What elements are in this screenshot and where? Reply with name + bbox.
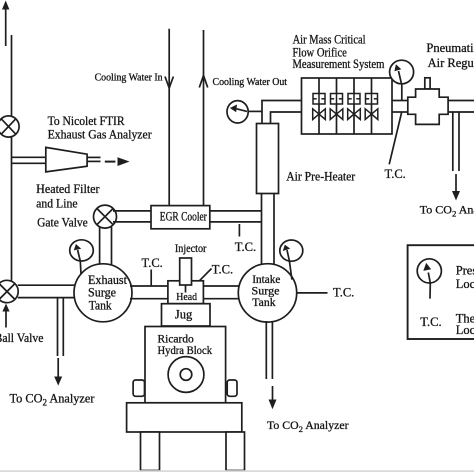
svg-text:and Line: and Line	[36, 196, 78, 211]
svg-text:To CO2 Analyzer: To CO2 Analyzer	[10, 391, 95, 407]
svg-text:Locations: Locations	[456, 323, 474, 337]
svg-text:Jug: Jug	[175, 308, 193, 322]
svg-text:To CO2 Analyzer: To CO2 Analyzer	[420, 203, 474, 219]
svg-text:Tank: Tank	[89, 298, 112, 313]
svg-text:Ball Valve: Ball Valve	[0, 330, 44, 345]
svg-text:Hydra Block: Hydra Block	[158, 343, 213, 357]
svg-text:Locations: Locations	[456, 277, 474, 291]
svg-text:Exhaust Gas Analyzer: Exhaust Gas Analyzer	[48, 127, 153, 142]
svg-text:T.C.: T.C.	[142, 256, 163, 270]
svg-text:Cooling Water In: Cooling Water In	[95, 73, 164, 84]
svg-text:T.C.: T.C.	[385, 167, 406, 181]
svg-text:Injector: Injector	[175, 241, 207, 255]
svg-text:Heated Filter: Heated Filter	[36, 181, 100, 196]
svg-text:Air Regulator: Air Regulator	[428, 56, 474, 70]
svg-text:T.C.: T.C.	[420, 315, 441, 329]
svg-text:Tank: Tank	[252, 295, 275, 309]
svg-text:EGR Cooler: EGR Cooler	[160, 208, 207, 223]
svg-text:T.C.: T.C.	[212, 263, 233, 277]
svg-text:T.C.: T.C.	[333, 286, 354, 300]
svg-text:To CO2 Analyzer: To CO2 Analyzer	[267, 418, 349, 434]
svg-text:Gate Valve: Gate Valve	[37, 214, 88, 229]
svg-text:Air Pre-Heater: Air Pre-Heater	[286, 169, 356, 184]
svg-text:Head: Head	[176, 291, 197, 303]
svg-text:Pneumatic: Pneumatic	[426, 41, 474, 55]
svg-text:T.C.: T.C.	[235, 240, 256, 254]
svg-text:Cooling Water Out: Cooling Water Out	[213, 77, 288, 88]
svg-text:Pressure: Pressure	[456, 263, 474, 277]
svg-text:Measurement System: Measurement System	[292, 56, 384, 71]
